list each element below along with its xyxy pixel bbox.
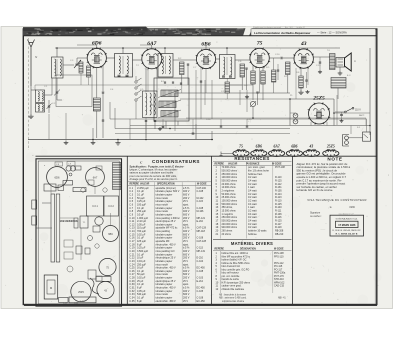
constructor stamp box xyxy=(330,215,364,236)
capacitor C10 coupling xyxy=(280,57,282,59)
resistor R5 xyxy=(261,71,265,84)
svg-text:supplémentés d'usine: supplémentés d'usine xyxy=(222,300,245,303)
chassis speaker box M xyxy=(44,275,58,299)
rectifier loop rectangle xyxy=(290,99,370,126)
resistor R3 diode load xyxy=(240,64,245,77)
wire block to bus xyxy=(165,121,167,129)
block top small caps xyxy=(164,81,166,83)
wire top cap feeds xyxy=(77,44,97,46)
svg-text:6A7: 6A7 xyxy=(274,145,280,149)
svg-text:6A7: 6A7 xyxy=(93,176,98,180)
pilot lamp 2 xyxy=(293,119,298,124)
svg-text:25Z5: 25Z5 xyxy=(78,291,84,294)
chassis small boxes under 6D6 xyxy=(44,184,56,191)
junction dots xyxy=(56,47,58,49)
svg-text:75: 75 xyxy=(257,41,263,47)
tube 6B6 xyxy=(196,49,215,68)
svg-text:Signature: Signature xyxy=(310,212,321,215)
ground detector xyxy=(307,90,309,92)
oscillator coil T3 xyxy=(143,91,158,118)
chassis trimmer box CV xyxy=(63,181,73,186)
ground bus 1 xyxy=(92,128,94,140)
coil and filter block assembly xyxy=(154,78,189,121)
antenna xyxy=(28,40,35,87)
svg-text:R. C. SEINE 214-307 B: R. C. SEINE 214-307 B xyxy=(336,232,358,235)
schematic value labels xyxy=(44,50,361,129)
svg-text:ou cachet :: ou cachet : xyxy=(310,215,322,218)
chassis filter box CF1 xyxy=(87,196,104,216)
svg-text:DÉSIGNATION: DÉSIGNATION xyxy=(240,248,256,251)
chassis bottom long box C17 xyxy=(69,297,96,303)
resistor R8 bias xyxy=(299,76,303,88)
chassis tube 6D6 top view xyxy=(47,167,68,188)
svg-text:C-108: C-108 xyxy=(197,270,204,273)
banner diagonal white slash xyxy=(243,27,253,37)
chassis misc small parts xyxy=(64,240,73,247)
chassis mid circle xyxy=(95,217,103,225)
materiel divers footnote xyxy=(219,293,286,302)
svg-text:6D6: 6D6 xyxy=(55,176,60,180)
materiel divers table header xyxy=(215,248,284,251)
chassis speaker cable xyxy=(90,278,99,294)
wire loop lower rail xyxy=(186,117,366,119)
capacitor C20 line xyxy=(340,114,343,116)
chassis tube 6B6 top view xyxy=(103,226,119,242)
svg-text:C.35: C.35 xyxy=(129,300,135,303)
note paragraph xyxy=(297,162,351,192)
wire bottom bus xyxy=(28,139,213,141)
wire switch up xyxy=(366,119,368,132)
svg-text:Supplément technique mensuel: Supplément technique mensuel . . . Exc. … xyxy=(253,26,306,29)
wire antenna to coil xyxy=(31,89,36,91)
wire V4 legs xyxy=(252,66,254,72)
svg-text:W-CODE: W-CODE xyxy=(272,163,282,165)
wire T5 to rail xyxy=(226,48,228,55)
wire loop second rail xyxy=(180,98,290,100)
wire V1 cathode down xyxy=(102,66,104,92)
wire V2 top cap xyxy=(151,45,153,49)
wire V4 bottom drop xyxy=(259,68,261,93)
voltage selector switch S1 xyxy=(335,111,344,113)
chassis grommet 2 xyxy=(70,166,75,171)
stamp date bar xyxy=(336,221,359,227)
chassis bottom small box C16 xyxy=(59,298,69,303)
divider chassis-col1 xyxy=(126,156,128,304)
chassis tube 25Z5 top view xyxy=(71,281,91,301)
svg-text:6B6: 6B6 xyxy=(108,233,113,236)
svg-text:8 µF: 8 µF xyxy=(137,300,142,303)
capacitor C5 xyxy=(102,119,104,121)
divider horizontal bottom section xyxy=(36,155,378,157)
svg-text:la bande GO en fin de course.: la bande GO en fin de course. xyxy=(297,188,334,192)
tube 25Z5 xyxy=(309,103,330,124)
wire T4 to V3 xyxy=(173,59,197,61)
tube 43 xyxy=(294,49,313,68)
chassis tuning shaft boxes xyxy=(32,200,37,209)
svg-text:MATÉRIEL DIVERS: MATÉRIEL DIVERS xyxy=(231,241,273,246)
svg-text:NB : branchrés à la masse: NB : branchrés à la masse xyxy=(219,293,247,296)
capacitor C7 xyxy=(187,63,189,65)
chassis tube 75 top view xyxy=(99,258,116,275)
wire antenna down-lead xyxy=(30,86,32,114)
wire V5 cathode xyxy=(300,68,302,76)
svg-text:MP-118: MP-118 xyxy=(197,230,206,233)
svg-text:C-104: C-104 xyxy=(197,260,204,263)
tube base diagram 6B6 xyxy=(286,150,302,156)
svg-text:6D6: 6D6 xyxy=(256,145,263,149)
wire T5 to diode V4 xyxy=(235,59,250,61)
capacitor C13 tone xyxy=(319,61,321,63)
resistances table header xyxy=(215,162,282,165)
wire V2 bottom drop xyxy=(147,69,149,92)
svg-text:C.F.2: C.F.2 xyxy=(108,205,114,208)
resistor R7 grid leak xyxy=(286,62,291,75)
capacitor C11 xyxy=(277,69,279,71)
wire T2 to V2 grid xyxy=(133,59,143,61)
divider above materiel divers xyxy=(213,239,292,241)
svg-text:NBl- 41: NBl- 41 xyxy=(278,298,286,300)
capacitor C4 cathode bypass xyxy=(102,91,104,93)
pilot lamp 1 xyxy=(293,113,298,118)
svg-text:Ω: Ω xyxy=(354,60,356,63)
wire 25Z5 cathode taps xyxy=(310,122,312,126)
chassis filter box CF2 xyxy=(104,196,119,216)
svg-text:d'usage pour P et M, et de ser: d'usage pour P et M, et de service pour … xyxy=(130,177,179,181)
svg-text:20 ohms: 20 ohms xyxy=(222,233,232,236)
svg-text:W-CODE: W-CODE xyxy=(197,184,207,186)
wire T4 to rail xyxy=(164,48,166,54)
ground speaker frame xyxy=(339,67,341,71)
chassis tube 6A7 top view xyxy=(86,168,105,187)
frame top line under banner xyxy=(23,35,377,37)
wire lamp feed xyxy=(290,112,296,114)
wire legend baseline xyxy=(221,152,233,154)
svg-text:6B6: 6B6 xyxy=(291,145,297,149)
wire volume divider xyxy=(252,84,254,100)
chassis tube 43 top view xyxy=(97,281,114,298)
coil L1 antenna loading xyxy=(36,90,45,103)
svg-text:17 MARS 1936: 17 MARS 1936 xyxy=(338,224,356,227)
wire speaker return xyxy=(336,95,338,125)
svg-text:CAD-215: CAD-215 xyxy=(274,285,285,288)
condensateurs table rows xyxy=(129,187,206,303)
svg-text:PUISSANCE: PUISSANCE xyxy=(246,162,260,165)
chassis dial drive rails xyxy=(51,194,55,262)
chassis mid part T1 xyxy=(80,216,88,228)
IF transformer T5 xyxy=(220,55,236,79)
wire L1 to T1 xyxy=(45,94,53,96)
svg-text:SONORA-RADIO S.A.: SONORA-RADIO S.A. xyxy=(336,217,358,220)
svg-text:CONDENSATEURS: CONDENSATEURS xyxy=(152,159,200,164)
svg-text:75: 75 xyxy=(239,145,243,149)
svg-text:— Série : 12 — SONORA: — Série : 12 — SONORA xyxy=(317,31,347,35)
wire V3 top cap xyxy=(205,46,207,50)
wire dashed frame inner line xyxy=(28,38,30,150)
resistor R9 below T5 xyxy=(225,82,229,93)
svg-text:VALEUR: VALEUR xyxy=(140,183,150,186)
wire V2 cathode legs xyxy=(145,67,147,92)
materiel divers table column rules xyxy=(219,251,221,293)
chassis small trim caps mid xyxy=(88,180,94,185)
svg-text:C.F.1: C.F.1 xyxy=(92,205,98,208)
coil block tuning arrows xyxy=(158,90,181,98)
tuning capacitor C3 xyxy=(63,64,74,66)
svg-text:REPÈRE: REPÈRE xyxy=(215,248,225,251)
svg-text:C-115: C-115 xyxy=(197,200,204,203)
chassis grommet 1 xyxy=(66,166,71,171)
svg-text:25Z5: 25Z5 xyxy=(326,145,335,149)
potentiometer R6 volume xyxy=(250,101,255,106)
svg-text:SECT.: SECT. xyxy=(359,115,365,117)
resistor R2 AVC xyxy=(180,62,185,75)
chassis wiring guide lines xyxy=(50,185,52,194)
resistor R4 xyxy=(251,71,255,84)
chassis mid rect right xyxy=(93,226,100,232)
svg-text:RB-210: RB-210 xyxy=(275,233,284,236)
tube base diagram 6A7 xyxy=(269,150,285,156)
tube 75 xyxy=(250,48,269,67)
wire V3 bottom drop xyxy=(205,69,207,93)
resistances table column rules xyxy=(219,162,221,239)
svg-text:C-105: C-105 xyxy=(197,290,204,293)
wire right B+ vertical xyxy=(369,48,371,135)
ground V5 cathode xyxy=(300,88,302,90)
chassis shaft line xyxy=(37,227,53,229)
capacitor C18 on rail xyxy=(162,126,165,128)
ground mid xyxy=(246,95,248,97)
svg-text:CAT-128: CAT-128 xyxy=(197,240,207,243)
wire V3 plate to T5 xyxy=(216,58,220,60)
wire plug to switch box xyxy=(348,137,362,139)
svg-text:VISA TECHNIQUE DU CONSTRUCTEUR: VISA TECHNIQUE DU CONSTRUCTEUR xyxy=(307,198,366,202)
output transformer T6 xyxy=(330,54,336,70)
wire coupling to V5 xyxy=(269,57,280,59)
wire rail risers xyxy=(109,102,111,119)
IF transformer T2 xyxy=(115,54,133,78)
wire 43 screen to loop xyxy=(295,68,297,99)
svg-text:châssis tôle cadmiée: châssis tôle cadmiée xyxy=(222,288,245,291)
coil L2 wave trap xyxy=(36,104,45,113)
svg-text:POT-108: POT-108 xyxy=(275,166,285,169)
svg-text:15, RUE DE L'ATLAS, PARIS XIX°: 15, RUE DE L'ATLAS, PARIS XIX° xyxy=(332,229,361,232)
tube base diagram 6D6 xyxy=(251,150,267,156)
chassis top-mid small parts xyxy=(76,246,82,254)
chassis small part xyxy=(75,166,81,170)
ground mid rail xyxy=(159,127,161,129)
wire V1 plate to T2 xyxy=(106,57,115,59)
svg-text:C-108: C-108 xyxy=(197,190,204,193)
svg-text:M-106: M-106 xyxy=(197,210,205,213)
field coil block xyxy=(331,78,346,89)
title banner xyxy=(23,27,252,36)
svg-text:43: 43 xyxy=(300,41,307,47)
chassis mid small circles xyxy=(88,236,93,241)
svg-text:C.17: C.17 xyxy=(80,301,85,303)
capacitor C9 xyxy=(256,91,258,93)
antenna transformer T1 xyxy=(52,57,64,78)
capacitor C12 xyxy=(305,79,307,81)
chassis top small labels xyxy=(55,162,63,166)
svg-text:E-212: E-212 xyxy=(197,280,204,283)
materiel divers table rows xyxy=(216,252,286,291)
capacitor C14 below V3 xyxy=(200,80,202,82)
wire T2 top to rail xyxy=(122,48,124,54)
wire V5 plate to output transformer xyxy=(313,56,330,58)
chassis mid part small xyxy=(74,218,78,228)
chassis flat box C20 xyxy=(96,277,111,282)
svg-text:REPÈRE: REPÈRE xyxy=(215,162,225,165)
svg-text:VALEUR: VALEUR xyxy=(228,162,238,165)
svg-text:E.C.: E.C. xyxy=(347,75,351,77)
chassis power transformer xyxy=(113,163,121,190)
resistor R11 grid xyxy=(79,62,83,73)
chassis flat box xyxy=(73,188,86,192)
shield box antenna-oscillator xyxy=(56,75,92,107)
ground bus 4 xyxy=(65,141,67,143)
tube 6D6 xyxy=(87,48,106,67)
tube base diagram 43 xyxy=(303,150,319,156)
svg-text:SPÉCIFICATION: SPÉCIFICATION xyxy=(157,183,175,186)
ground antenna xyxy=(30,114,32,116)
chassis layout outer box xyxy=(36,159,122,306)
tube base diagram 25Z5 xyxy=(323,150,339,156)
trimmer C1 xyxy=(48,105,50,107)
capacitor C8 xyxy=(245,67,247,69)
svg-text:bobinée: bobinée xyxy=(248,233,257,236)
wire lower rail third xyxy=(115,133,290,135)
wire B+ top rail xyxy=(55,47,340,49)
wire screen feed xyxy=(181,85,183,93)
svg-text:PFS-110: PFS-110 xyxy=(274,255,284,258)
trimmer C2 xyxy=(56,91,58,93)
wire plug drop xyxy=(350,126,352,135)
svg-text:NOTE: NOTE xyxy=(327,156,342,161)
svg-text:REPÈRE: REPÈRE xyxy=(130,183,140,186)
svg-text:25 V: 25 V xyxy=(183,300,188,303)
wire heater string xyxy=(334,112,370,114)
svg-text:VUE DESSOUS: VUE DESSOUS xyxy=(60,220,78,223)
resistor R12 AVC filter xyxy=(87,66,91,77)
padder capacitor C6 xyxy=(145,120,147,122)
svg-text:RÉSISTANCES: RÉSISTANCES xyxy=(234,156,269,161)
svg-text:110 V: 110 V xyxy=(355,110,361,112)
svg-text:La Documentation du Radio-Dépa: La Documentation du Radio-Dépanneur xyxy=(254,31,311,35)
banner right title box xyxy=(251,29,376,36)
ground bus 3 xyxy=(92,141,94,143)
svg-text:MP-131: MP-131 xyxy=(197,250,206,253)
tube 6A7 xyxy=(142,49,162,69)
condensateurs table header xyxy=(130,183,207,186)
wire bus risers xyxy=(65,113,67,140)
divider col1-col2 xyxy=(211,156,213,304)
wire T1 primary to rail xyxy=(56,48,58,57)
tube base diagram 75 xyxy=(233,150,249,156)
chassis part between xyxy=(88,270,96,279)
wire grid to tube V1 xyxy=(76,58,78,63)
svg-text:E-210: E-210 xyxy=(197,220,204,223)
IF transformer T4 xyxy=(158,54,173,78)
wire V1 top cap xyxy=(96,45,98,48)
wire lamps xyxy=(295,118,297,119)
divider col2-col3 xyxy=(292,156,294,304)
condensateurs specification paragraph xyxy=(130,164,185,181)
svg-text:électrochim. 450 V: électrochim. 450 V xyxy=(156,300,177,303)
chassis bottom small rect xyxy=(96,276,102,281)
capacitor C17 on rail xyxy=(246,125,248,127)
capacitor C19 on lower rail xyxy=(192,132,195,134)
ground bus 2 xyxy=(117,141,119,143)
wire field coil down xyxy=(337,88,339,99)
svg-text:NBl : antennes 0,408 cond.: NBl : antennes 0,408 cond. xyxy=(219,297,247,300)
svg-text:W-CODE: W-CODE xyxy=(274,249,284,251)
switch box S3 xyxy=(363,132,371,141)
wire detector out xyxy=(230,84,253,86)
band switch S2 xyxy=(135,81,137,83)
speaker xyxy=(345,53,352,71)
svg-text:1936: 1936 xyxy=(349,206,355,209)
line cord plug P1 xyxy=(343,135,350,147)
wire mid loop rails xyxy=(175,92,290,94)
wire screen xyxy=(102,99,104,120)
wire AVC line xyxy=(35,84,242,86)
svg-text:25Z5: 25Z5 xyxy=(312,96,325,102)
capacitor C16 on rail xyxy=(220,125,222,127)
svg-text:EC-450: EC-450 xyxy=(197,300,206,303)
svg-text:43: 43 xyxy=(309,145,314,149)
wire T1 secondary down xyxy=(56,78,58,92)
resistances table rows xyxy=(216,166,286,236)
resistor R1 cathode xyxy=(93,98,100,111)
condensateurs table column rules xyxy=(134,182,136,302)
svg-text:visa déposé n° 27: visa déposé n° 27 xyxy=(338,213,353,215)
wire V5 screen drop xyxy=(307,68,309,85)
resistor R10 between stages xyxy=(272,70,276,82)
